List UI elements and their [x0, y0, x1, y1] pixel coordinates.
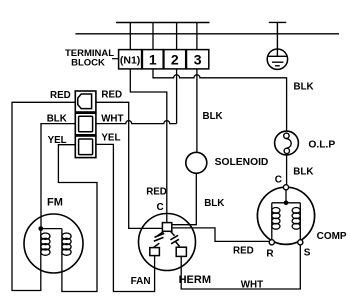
compressor junction dot [284, 201, 289, 206]
svg-text:RED: RED [50, 90, 71, 101]
capacitor left branch plates [154, 231, 165, 247]
svg-text:RED: RED [101, 90, 122, 101]
capacitor C terminal square [162, 223, 171, 232]
wire drop bus to terminal 3 [196, 23, 198, 50]
wire capacitor C to compressor R [172, 228, 269, 242]
compressor S terminal [298, 240, 303, 245]
svg-text:SOLENOID: SOLENOID [215, 157, 269, 168]
svg-text:FAN: FAN [131, 276, 151, 287]
svg-text:2: 2 [171, 51, 179, 67]
svg-text:BLK: BLK [203, 111, 223, 122]
wire terminal 1 to OLP with hops [153, 69, 287, 131]
svg-text:COMP: COMP [317, 231, 347, 242]
compressor left coil [272, 208, 280, 230]
wire RED left to FM winding A [12, 102, 75, 290]
svg-text:WHT: WHT [101, 113, 123, 124]
svg-text:O.L.P: O.L.P [308, 140, 335, 151]
svg-text:HERM: HERM [179, 274, 211, 286]
svg-text:RED: RED [233, 246, 254, 257]
svg-text:C: C [275, 174, 282, 185]
terminal box N1 [119, 50, 142, 69]
FM left coil [41, 233, 50, 255]
svg-text:YEL: YEL [101, 133, 120, 144]
compressor inner wiring [272, 190, 301, 240]
wire YEL right to capacitor FAN [96, 144, 155, 291]
terminal box 2 [164, 50, 186, 69]
wire HERM to S (WHT) [181, 245, 300, 289]
capacitor circle [139, 214, 196, 271]
FM junction dot [38, 226, 43, 231]
wire terminal 3 down to solenoid [196, 69, 198, 152]
connector cell 3 [75, 136, 96, 158]
svg-text:C: C [157, 202, 164, 213]
compressor right coil [292, 208, 300, 230]
wire BLK left to FM common [41, 124, 75, 229]
capacitor right branch plates [170, 231, 179, 247]
svg-text:FM: FM [47, 197, 63, 209]
svg-text:(N1): (N1) [120, 55, 140, 67]
svg-text:1: 1 [149, 51, 157, 67]
terminal box 3 [187, 50, 209, 69]
wire N1 to capacitor C (vertical x166.8) [130, 69, 167, 223]
solenoid circle [186, 152, 207, 173]
wire RED right to capacitor C [96, 102, 162, 228]
FM right coil [62, 233, 71, 255]
svg-text:BLOCK: BLOCK [71, 58, 105, 69]
svg-text:BLK: BLK [293, 167, 313, 178]
svg-text:BLK: BLK [204, 198, 224, 209]
wire main supply line [75, 33, 339, 35]
svg-text:S: S [304, 248, 311, 259]
label tick to N1 box [112, 58, 119, 60]
terminal block label [65, 48, 114, 69]
FM motor circle [24, 214, 83, 273]
svg-text:3: 3 [194, 51, 202, 67]
wire L bus bar top [116, 22, 210, 24]
OLP circle [275, 131, 299, 155]
wire solenoid to capacitor C [172, 173, 197, 224]
svg-text:WHT: WHT [241, 280, 263, 291]
ground symbol top bar [269, 21, 286, 23]
wire YEL left to FM winding B [58, 145, 97, 292]
wire terminal 2 down to WHT [176, 69, 178, 124]
capacitor FAN terminal square [150, 248, 160, 256]
wire ground drop [276, 22, 278, 56]
connector cell 1 [75, 91, 96, 112]
wire OLP to compressor C [286, 155, 288, 185]
capacitor HERM terminal square [176, 247, 186, 256]
svg-text:BLK: BLK [294, 82, 314, 93]
terminal box 1 [142, 50, 163, 69]
ground earth circle [267, 49, 287, 69]
FM top bar [41, 228, 62, 230]
wire drop bus to terminal N1 [129, 23, 131, 50]
compressor circle [257, 187, 314, 244]
wire WHT right to terminal2 drop with hops [96, 121, 177, 124]
compressor C terminal [283, 185, 288, 190]
compressor R terminal [269, 240, 274, 245]
svg-text:RED: RED [146, 187, 167, 198]
wire drop bus to terminal 2 [176, 23, 178, 50]
wire drop bus to terminal 1 [152, 23, 154, 50]
connector cell 2 [75, 113, 96, 135]
svg-text:R: R [266, 249, 274, 260]
